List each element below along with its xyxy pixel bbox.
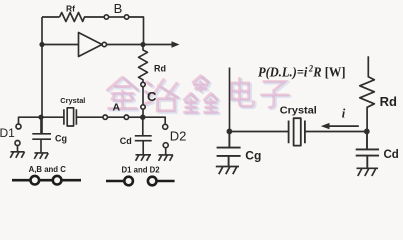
char dian (231, 78, 253, 106)
junction dot at Cd node (140, 115, 145, 120)
capacitor Cg (right) (217, 132, 241, 167)
ground under Cg (right) (216, 167, 239, 175)
svg-text:Cd: Cd (120, 136, 132, 146)
wire: D1 terminal drop (19, 117, 42, 124)
wire: crystal to Rd node (305, 131, 367, 133)
wire between C terminals (142, 87, 144, 105)
node D2 lower terminal (163, 143, 168, 148)
svg-text:A,B and C: A,B and C (29, 165, 67, 174)
svg-text:Cg: Cg (245, 148, 261, 162)
junction dot at Rd node (364, 129, 370, 135)
current arrow i head (321, 123, 330, 129)
wire: node A to Cd node (129, 116, 143, 118)
svg-text:P(D.L.)=i2R [W]: P(D.L.)=i2R [W] (258, 63, 346, 79)
legend A,B,C probe line (12, 176, 81, 185)
wire: output arrow shaft (143, 44, 173, 46)
ground under Cg (34, 153, 48, 159)
svg-text:Cd: Cd (384, 149, 399, 161)
wire: to crystal (229, 131, 288, 133)
wire: to inverter input (42, 44, 79, 46)
resistor Rd (right circuit) (360, 56, 375, 131)
wire: D2 terminal drop (143, 117, 165, 124)
inverter output bubble (102, 42, 106, 46)
char zi (261, 81, 288, 107)
capacitor Cg (left) (32, 117, 51, 152)
crystal X2 (289, 121, 305, 144)
node D1 upper terminal (16, 124, 21, 129)
svg-text:Cg: Cg (55, 134, 67, 144)
wire: left rail (right circuit) (229, 68, 231, 132)
wire: to crystal (41, 116, 64, 118)
crystal X1 (64, 109, 77, 124)
resistor Rd (left circuit) (139, 45, 148, 83)
wire: C to crystal line (142, 109, 144, 117)
output arrow head (172, 41, 180, 47)
char jin (107, 77, 137, 108)
junction dot at output node (140, 42, 145, 47)
watermark 金洛鑫电子 (109, 77, 290, 113)
wire: top feedback, left segment (42, 16, 60, 18)
svg-text:i: i (342, 107, 346, 121)
junction dot at inverter input (39, 42, 44, 47)
junction dot at Cg node (38, 115, 43, 120)
op-amp inverter U1 (79, 33, 103, 57)
node A left terminal (103, 115, 107, 119)
node C lower terminal (141, 105, 145, 109)
svg-text:C: C (147, 89, 157, 104)
svg-text:Crystal: Crystal (60, 96, 85, 105)
svg-text:D2: D2 (170, 129, 187, 144)
svg-text:Rd: Rd (154, 63, 166, 73)
svg-text:Rd: Rd (380, 94, 397, 109)
ground under Cd (right) (357, 168, 379, 176)
ground under Cd (136, 155, 152, 161)
ground below D1 (10, 146, 24, 158)
node D1 lower terminal (15, 141, 20, 146)
wire: inverter output (107, 44, 144, 46)
wire between B terminals (109, 16, 125, 18)
legend D1,D2 probe line (106, 177, 175, 186)
node B left terminal (104, 15, 108, 19)
wire between A terminals (107, 116, 124, 118)
junction dot (227, 129, 233, 135)
svg-text:Crystal: Crystal (280, 105, 317, 116)
resistor Rf (60, 13, 105, 22)
node D2 upper terminal (163, 124, 168, 129)
current arrow i shaft (329, 125, 359, 127)
svg-text:D1 and D2: D1 and D2 (122, 165, 161, 174)
ground below D2 (159, 148, 174, 161)
node B right terminal (124, 15, 128, 19)
svg-text:A: A (113, 102, 121, 114)
node C upper terminal (141, 82, 145, 86)
wire: left vertical rail (41, 17, 43, 133)
char luo (145, 80, 177, 111)
svg-text:D1: D1 (0, 126, 15, 140)
capacitor Cd (right) (356, 131, 379, 168)
node A right terminal (124, 115, 128, 119)
wire: top right corner down to output node (129, 17, 144, 45)
wire: crystal to node A (76, 116, 103, 118)
char xin (185, 76, 218, 112)
svg-text:Rf: Rf (66, 3, 75, 13)
svg-text:B: B (114, 1, 123, 16)
capacitor Cd (left) (135, 117, 152, 154)
